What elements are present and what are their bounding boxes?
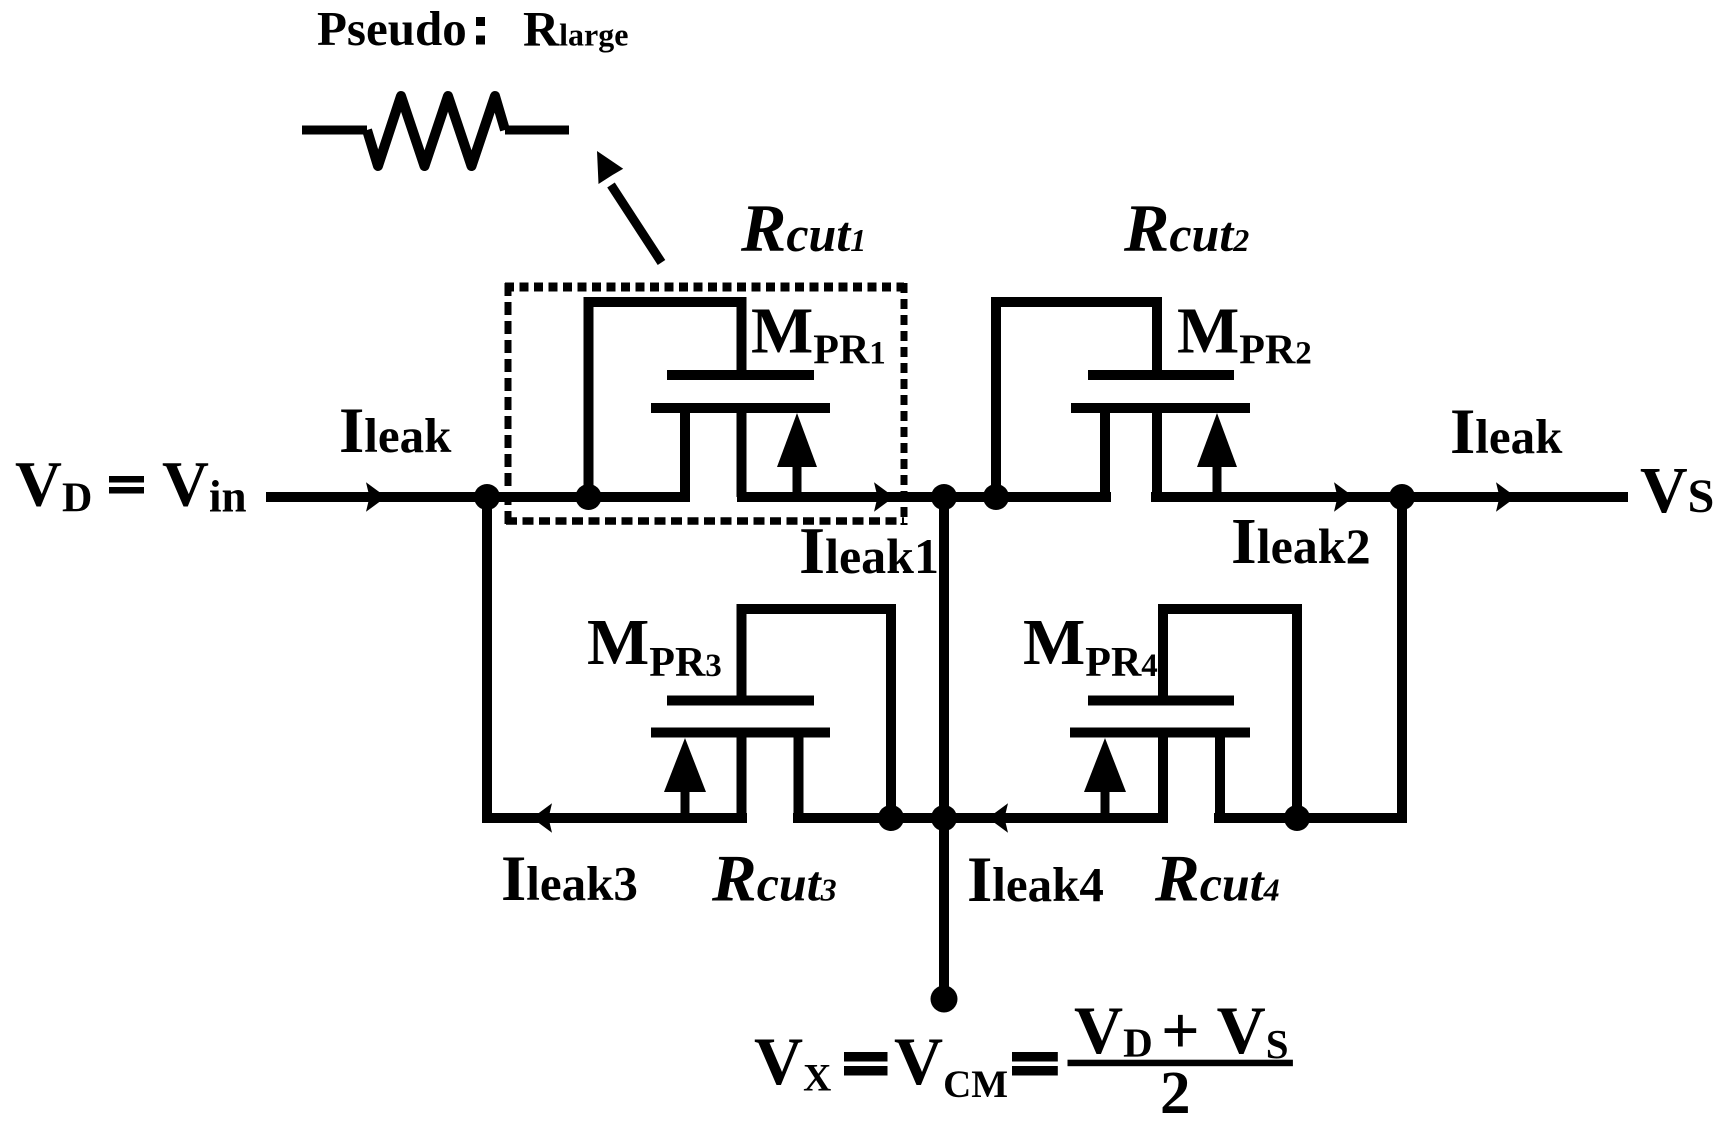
svg-text:+: + <box>1161 992 1200 1068</box>
svg-text:2: 2 <box>1160 1060 1191 1127</box>
svg-text:Pseudo: Pseudo <box>317 1 467 56</box>
